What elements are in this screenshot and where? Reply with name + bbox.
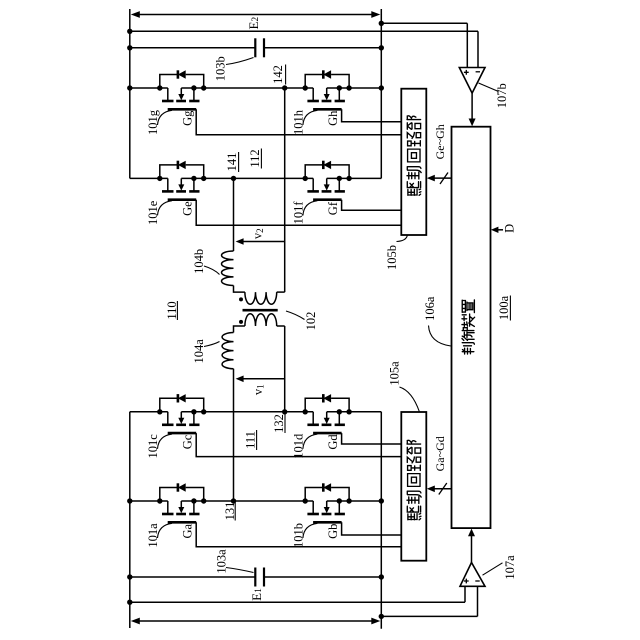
op-amp 107a (comparator, pointing up): [460, 563, 485, 587]
junction: [379, 85, 384, 90]
svg-text:111: 111: [244, 431, 258, 449]
label 101f with leader: [291, 201, 317, 225]
minus sign: [475, 580, 479, 582]
svg-text:101a: 101a: [146, 523, 160, 548]
svg-text:104b: 104b: [192, 249, 206, 274]
transistor 101b (MOSFET with body diode): [303, 483, 402, 535]
svg-text:Gg: Gg: [181, 110, 195, 126]
junction: [379, 614, 384, 619]
inductor 104a (primary winding, 4 loops): [222, 333, 233, 369]
wire node 141 bus down to coil 104b: [233, 178, 235, 251]
svg-text:101c: 101c: [146, 434, 160, 459]
svg-text:103b: 103b: [213, 56, 227, 81]
label 101d with leader: [291, 433, 317, 459]
wire bottom winding to node 132 bus: [277, 325, 285, 327]
junction: [379, 45, 384, 50]
transformer bottom winding (3 loops): [245, 314, 277, 326]
wire to op-amp 107a - input: [381, 615, 477, 617]
svg-text:107b: 107b: [495, 83, 509, 108]
svg-text:Ge: Ge: [181, 201, 195, 216]
transistor 101g (MOSFET with body diode): [157, 70, 401, 135]
junction: [379, 21, 384, 26]
wire bottom cap rail right: [264, 576, 381, 578]
svg-text:Gd: Gd: [326, 434, 340, 450]
label 101c with leader: [146, 434, 172, 459]
label 107a with leader: [483, 563, 503, 575]
label 103a with leader: [226, 568, 254, 573]
wire bottom winding to coil 104a: [234, 326, 245, 333]
E1 dimension line with arrows: [136, 620, 375, 622]
svg-text:Ga~Gd: Ga~Gd: [433, 436, 447, 471]
node 132: [282, 409, 287, 414]
wire right bus (top bridge): [380, 9, 382, 178]
capacitor 103a: [254, 568, 256, 587]
svg-text:101g: 101g: [146, 109, 160, 135]
svg-text:110: 110: [165, 301, 179, 319]
transistor 101h (MOSFET with body diode): [303, 70, 402, 122]
v2 arrow annotation: [243, 241, 285, 243]
wire bottom rail to op-amp 107a + input: [130, 601, 465, 603]
label 105b with leader: [397, 236, 408, 242]
svg-text:106a: 106a: [423, 296, 437, 321]
svg-text:Gh: Gh: [326, 110, 340, 126]
svg-text:101b: 101b: [291, 523, 305, 548]
label 101b with leader: [291, 523, 317, 548]
svg-text:102: 102: [304, 312, 318, 331]
label 102 with leader: [286, 311, 305, 320]
D input arrow: [496, 229, 503, 231]
svg-text:141: 141: [225, 153, 239, 172]
wire top cap rail left: [130, 47, 256, 49]
wire row4 (101a/101b): [130, 500, 168, 502]
svg-text:142: 142: [271, 65, 285, 84]
plus sign: [464, 70, 469, 75]
wire right bus (bottom bridge): [380, 412, 382, 629]
node 142: [282, 85, 287, 90]
junction: [127, 85, 132, 90]
svg-text:101e: 101e: [146, 200, 160, 225]
svg-text:101h: 101h: [291, 109, 305, 135]
wire to op-amp 107b + input: [381, 22, 467, 24]
transformer core 102: [243, 309, 278, 312]
svg-text:Gb: Gb: [326, 524, 340, 539]
svg-text:Gc: Gc: [181, 434, 195, 449]
capacitor 103b: [254, 38, 256, 57]
wire node 132 bus from transformer: [284, 326, 286, 412]
svg-text:Ge~Gh: Ge~Gh: [433, 124, 447, 159]
svg-text:132: 132: [272, 414, 286, 433]
label 101h with leader: [291, 109, 317, 135]
svg-text:105a: 105a: [387, 361, 401, 386]
label 105a with leader: [400, 387, 420, 412]
label 107b with leader: [479, 83, 499, 92]
control device box 100a: [452, 127, 491, 528]
text 駆動回路部 (drive circuit unit 105a): [407, 440, 421, 520]
transistor 101a (MOSFET with body diode): [157, 483, 401, 547]
transformer top winding (3 loops): [245, 292, 277, 304]
wire top cap rail right: [264, 47, 381, 49]
node 131: [231, 498, 236, 503]
svg-text:Ga: Ga: [181, 523, 195, 538]
label 101e with leader: [146, 200, 172, 225]
wire top winding to node 142 bus: [277, 291, 285, 293]
wire node 131 bus from coil 104a: [233, 369, 235, 501]
v1 arrow annotation: [243, 378, 285, 380]
inductor 104b (primary winding, 4 loops): [222, 251, 234, 285]
wire left bus (bottom bridge): [129, 412, 131, 628]
svg-text:112: 112: [248, 149, 262, 167]
minus sign: [476, 71, 480, 73]
junction: [379, 574, 384, 579]
transistor 101e (MOSFET with body diode): [157, 161, 401, 226]
label 101a with leader: [146, 523, 172, 548]
node 141: [231, 176, 236, 181]
wire op-amp 107a output arrow: [471, 535, 473, 563]
bus arrow Ga~Gd (control to drive 105a): [433, 488, 452, 490]
svg-text:Gf: Gf: [326, 201, 340, 215]
svg-text:105b: 105b: [385, 245, 399, 270]
polarity dot (top winding): [239, 297, 243, 301]
text 駆動回路部 (drive circuit unit 105b): [407, 116, 421, 196]
svg-text:103a: 103a: [215, 549, 229, 574]
wire row2 (101e/101f): [130, 177, 168, 179]
junction: [127, 600, 132, 605]
svg-text:107a: 107a: [503, 555, 517, 580]
junction: [127, 574, 132, 579]
junction: [127, 45, 132, 50]
junction: [127, 29, 132, 34]
drive circuit box 105a: [401, 412, 426, 561]
E2 dimension line with arrows: [136, 14, 375, 16]
svg-text:104a: 104a: [192, 339, 206, 364]
svg-text:101d: 101d: [291, 433, 305, 459]
wire node 142 bus down to transformer: [284, 88, 286, 292]
polarity dot (bottom winding): [239, 320, 243, 324]
transistor 101d (MOSFET with body diode): [303, 394, 402, 444]
wire left bus (top bridge): [129, 9, 131, 178]
wire rail to op-amp 107b - input: [130, 30, 478, 32]
svg-text:101f: 101f: [291, 201, 305, 225]
svg-text:100a: 100a: [497, 295, 511, 320]
plus sign: [464, 579, 469, 584]
wire op-amp 107b output arrow: [471, 93, 473, 120]
junction: [127, 498, 132, 503]
wire row1 (101g/101h): [130, 87, 168, 89]
wire bottom cap rail left: [130, 576, 256, 578]
label 103b with leader: [226, 58, 254, 65]
text 制御装置 (control device): [462, 300, 475, 354]
bus arrow Ge~Gh (control to drive 105b): [433, 177, 452, 179]
label 106a with leader: [429, 326, 451, 347]
wire 104b to top winding: [234, 286, 245, 293]
junction: [379, 498, 384, 503]
op-amp 107b (comparator, pointing down): [459, 68, 485, 94]
svg-text:D: D: [503, 224, 517, 233]
transistor 101c (MOSFET with body diode): [157, 394, 401, 457]
label 104a with leader: [204, 342, 220, 347]
wire row3 (101c/101d): [130, 411, 168, 413]
label 104b with leader: [204, 266, 220, 275]
drive circuit box 105b: [401, 89, 426, 235]
label 101g with leader: [146, 109, 172, 135]
transistor 101f (MOSFET with body diode): [303, 161, 402, 211]
